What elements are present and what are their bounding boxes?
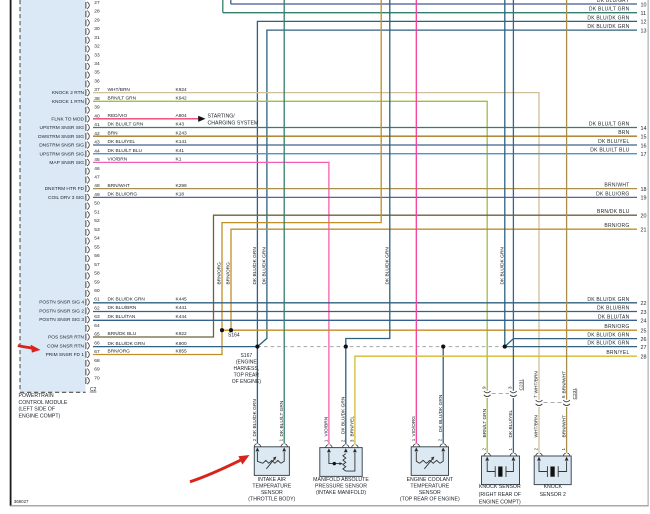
PCM pin 64 (connector terminal) bbox=[86, 323, 100, 332]
right exit 27: DK BLU/DK GRN label and lead number bbox=[587, 341, 646, 351]
svg-text:DK BLU/BRN: DK BLU/BRN bbox=[597, 306, 630, 312]
svg-text:54: 54 bbox=[94, 236, 100, 242]
svg-text:DK BLU/DK GRN: DK BLU/DK GRN bbox=[587, 24, 629, 30]
wire BRN/ORG from top edge jog to splice S164 bbox=[222, 0, 381, 330]
vertical wire label BRN/YEL at x=354.9 bbox=[350, 416, 356, 437]
wire BRN/ORG splice S164 up to exit 21 bbox=[231, 229, 637, 330]
right exit 26: DK BLU/DK GRN label and lead number bbox=[587, 333, 646, 343]
wire DK BLU/DK GRN bus junction down to ECT sensor pin 2 bbox=[442, 347, 444, 444]
svg-text:UPSTRM SNSR SIG: UPSTRM SNSR SIG bbox=[39, 151, 84, 157]
svg-text:BRN/ORG: BRN/ORG bbox=[226, 262, 232, 285]
wire label VIO/BRN K1 (pin 45) bbox=[108, 157, 182, 163]
svg-text:K1: K1 bbox=[176, 157, 182, 163]
right exit 18: BRN/WHT label and lead number bbox=[604, 183, 646, 193]
PCM pin 46 (connector terminal) bbox=[86, 166, 100, 175]
svg-text:OF ENGINE): OF ENGINE) bbox=[232, 379, 262, 385]
svg-text:10: 10 bbox=[641, 2, 647, 8]
PCM caption: POWERTRAIN CONTROL MODULE (LEFT SIDE OF ENGINE COMPT) bbox=[19, 393, 68, 419]
PCM pin 33 (connector terminal) bbox=[86, 52, 100, 61]
svg-text:COIL DRV 3 SIG: COIL DRV 3 SIG bbox=[48, 195, 84, 201]
pin 38 function label: KNOCK 1 RTN bbox=[52, 99, 85, 105]
shield/drain dashed bus S167 to junction at right bbox=[257, 346, 504, 348]
splice S167 junction dot bbox=[255, 345, 259, 349]
vertical wire label BRN/ORG at x=231.0 bbox=[226, 262, 232, 285]
svg-text:2: 2 bbox=[482, 448, 487, 451]
pin 49 function label: COIL DRV 3 SIG bbox=[48, 195, 84, 201]
svg-text:2: 2 bbox=[438, 438, 443, 441]
svg-text:27: 27 bbox=[94, 0, 100, 6]
right exit 11: DK BLU/LT GRN label and lead number bbox=[589, 7, 646, 17]
page border right bbox=[647, 0, 649, 506]
PCM pin 68 (connector terminal) bbox=[86, 358, 100, 367]
svg-text:COM SNSR RTN: COM SNSR RTN bbox=[47, 343, 84, 349]
wire DK BLU/DK GRN diagonal junction to exit 26 bbox=[505, 339, 637, 347]
pin 62 function label: POSTN SNSR SIG 2 bbox=[39, 309, 84, 315]
svg-text:K445: K445 bbox=[176, 296, 188, 302]
svg-text:3: 3 bbox=[508, 386, 513, 389]
PCM pin 59 (connector terminal) bbox=[86, 279, 100, 288]
PCM connector C2 label bbox=[90, 387, 97, 393]
inline connector C231 (knock sensor 2 wires) bbox=[533, 388, 578, 406]
svg-text:1: 1 bbox=[411, 438, 416, 441]
svg-text:K942: K942 bbox=[176, 96, 188, 102]
svg-text:VIO/BRN: VIO/BRN bbox=[108, 157, 128, 163]
PCM pin 43 (connector terminal) bbox=[86, 140, 100, 149]
svg-text:66: 66 bbox=[94, 340, 100, 346]
svg-text:(RIGHT REAR OF: (RIGHT REAR OF bbox=[479, 492, 521, 498]
wire DK BLU/LT GRN (exit 11) with stub to top edge bbox=[223, 0, 637, 13]
svg-text:WHT/BRN: WHT/BRN bbox=[108, 87, 131, 93]
wire label BRN/DK BLU K922 (pin 65) bbox=[108, 331, 188, 337]
svg-text:69: 69 bbox=[94, 367, 100, 373]
svg-text:DWSTRM SNSR SIG: DWSTRM SNSR SIG bbox=[38, 134, 84, 140]
svg-text:CONTROL MODULE: CONTROL MODULE bbox=[19, 400, 68, 406]
PCM pin 54 (connector terminal) bbox=[86, 236, 100, 245]
svg-text:25: 25 bbox=[641, 329, 647, 335]
red annotation arrow pointing at COM SNSR RTN pin 66 bbox=[18, 345, 41, 353]
vertical wire label BRN/ORG at x=222.0 bbox=[217, 262, 223, 285]
junction dot: bus to exits 26/27 bbox=[503, 345, 507, 349]
svg-text:DK BLU/DK GRN: DK BLU/DK GRN bbox=[108, 341, 146, 347]
svg-text:53: 53 bbox=[94, 227, 100, 233]
PCM pin 53 (connector terminal) bbox=[86, 227, 100, 236]
svg-text:30: 30 bbox=[94, 26, 100, 32]
wire label BRN/WHT K299 (pin 48) bbox=[108, 183, 188, 189]
vertical wire label VIO/ORG at x=416.3 bbox=[411, 416, 417, 437]
svg-text:13: 13 bbox=[641, 28, 647, 34]
wire K445 DK BLU/DK GRN pin 61 to exit 22 bbox=[93, 302, 637, 304]
svg-text:26: 26 bbox=[641, 337, 647, 343]
pin 43 function label: DNSTRM SNSR SIG bbox=[39, 143, 84, 149]
vertical wire label VIO/BRN at x=328.9 bbox=[324, 416, 330, 436]
svg-text:368027: 368027 bbox=[14, 499, 29, 504]
svg-text:BRN/LT GRN: BRN/LT GRN bbox=[482, 408, 488, 437]
vertical wire label DK BLU/DK GRN at x=257.4 bbox=[252, 399, 258, 437]
vertical wire label WHT/BRN at x=539.0 bbox=[534, 371, 540, 394]
wire label DK BLU/DK GRN K445 (pin 61) bbox=[108, 296, 188, 302]
vertical wire label DK BLU/DK GRN at x=345.8 bbox=[341, 396, 347, 434]
wire DK BLU/LT GRN from top edge down to IAT sensor pin 1 bbox=[283, 0, 285, 444]
svg-text:DNSTRM HTR FD: DNSTRM HTR FD bbox=[45, 186, 85, 192]
svg-text:61: 61 bbox=[94, 297, 100, 303]
svg-text:(ENGINE: (ENGINE bbox=[236, 360, 258, 366]
PCM pin 60 (connector terminal) bbox=[86, 288, 100, 297]
svg-text:64: 64 bbox=[94, 323, 100, 329]
PCM module body (light blue, dashed outline) bbox=[20, 0, 86, 392]
PCM pin 49 (connector terminal) bbox=[86, 192, 100, 201]
pin 41 function label: UPSTRM SNSR SIG bbox=[39, 125, 84, 131]
wire label BRN/ORG K855 (pin 67) bbox=[108, 349, 188, 355]
PCM pin 37 (connector terminal) bbox=[86, 87, 100, 96]
wire K444 DK BLU/TAN pin 63 to exit 24 bbox=[93, 319, 637, 321]
svg-text:DK BLU/TAN: DK BLU/TAN bbox=[598, 314, 630, 320]
svg-text:18: 18 bbox=[641, 187, 647, 193]
svg-text:BRN: BRN bbox=[108, 130, 119, 136]
PCM pin 62 (connector terminal) bbox=[86, 306, 100, 315]
page border bottom bbox=[10, 505, 649, 507]
pin 37 function label: KNOCK 2 RTN bbox=[52, 90, 85, 96]
PCM pin 31 (connector terminal) bbox=[86, 35, 100, 44]
svg-text:K18: K18 bbox=[176, 192, 185, 198]
svg-text:MAP SNSR SIG: MAP SNSR SIG bbox=[49, 160, 84, 166]
pin 63 function label: POSTN SNSR SIG 3 bbox=[39, 317, 84, 323]
svg-text:SENSOR 2: SENSOR 2 bbox=[540, 492, 566, 498]
PCM pin 69 (connector terminal) bbox=[86, 367, 100, 376]
svg-text:BRN/DK BLU: BRN/DK BLU bbox=[108, 331, 137, 337]
svg-text:DK BLU/DK GRN: DK BLU/DK GRN bbox=[587, 333, 629, 339]
knock sensor 2 caption bbox=[540, 484, 566, 498]
pin 42 function label: DWSTRM SNSR SIG bbox=[38, 134, 84, 140]
wire K924 WHT/BRN from PCM pin 37 to knock sensor 2 pin 2 bbox=[93, 93, 539, 400]
svg-text:46: 46 bbox=[94, 166, 100, 172]
right exit 17: DK BLU/LT BLU label and lead number bbox=[590, 148, 646, 158]
right exit 16: DK BLU/YEL label and lead number bbox=[598, 139, 646, 149]
svg-text:58: 58 bbox=[94, 271, 100, 277]
knock sensor caption bbox=[479, 484, 521, 506]
wire K441 DK BLU/BRN pin 62 to exit 23 bbox=[93, 311, 637, 313]
svg-text:59: 59 bbox=[94, 279, 100, 285]
wire DK BLU/DK GRN from top edge down to bus junction bbox=[504, 0, 506, 347]
drawing number 368027 bbox=[14, 499, 29, 504]
svg-text:1: 1 bbox=[323, 439, 328, 442]
svg-text:DK BLU/DK GRN: DK BLU/DK GRN bbox=[500, 247, 506, 285]
right exit 15: BRN label and lead number bbox=[618, 130, 646, 140]
svg-text:BRN/DK BLU: BRN/DK BLU bbox=[597, 209, 630, 215]
svg-text:UPSTRM SNSR SIG: UPSTRM SNSR SIG bbox=[39, 125, 84, 131]
svg-text:POSTN SNSR SIG 2: POSTN SNSR SIG 2 bbox=[39, 309, 84, 315]
PCM pin 44 (connector terminal) bbox=[86, 148, 100, 157]
right exit 28: BRN/YEL label and lead number bbox=[606, 350, 646, 360]
svg-text:KNOCK 1 RTN: KNOCK 1 RTN bbox=[52, 99, 85, 105]
svg-text:50: 50 bbox=[94, 201, 100, 207]
svg-text:2: 2 bbox=[252, 438, 257, 441]
pin 40 function label: FLNK TO MOD bbox=[51, 116, 84, 122]
svg-text:DK BLU/DK GRN: DK BLU/DK GRN bbox=[587, 341, 629, 347]
wire BRN/WHT below connector C231 to knock sensor 2 pin 1 bbox=[566, 407, 568, 453]
svg-text:MANIFOLD ABSOLUTE: MANIFOLD ABSOLUTE bbox=[313, 477, 369, 483]
svg-text:POSTN SNSR SIG 4: POSTN SNSR SIG 4 bbox=[39, 300, 84, 306]
svg-text:K855: K855 bbox=[176, 349, 188, 355]
svg-text:POWERTRAIN: POWERTRAIN bbox=[19, 393, 54, 399]
wire K922 BRN/DK BLU pin 65 jog up to exit 20 bbox=[93, 215, 637, 337]
engine coolant temperature sensor (ECT) bbox=[411, 438, 449, 475]
PCM pin 63 (connector terminal) bbox=[86, 314, 100, 323]
wire DK BLU/YEL from top edge down to knock sensor pin 1 bbox=[512, 0, 514, 391]
wire label DK BLU/YEL K141 (pin 43) bbox=[108, 139, 188, 145]
wire K141 DK BLU/YEL pin 43 to exit 16 bbox=[93, 144, 637, 146]
svg-text:DK BLU/DK GRN: DK BLU/DK GRN bbox=[108, 296, 146, 302]
svg-text:WHT/BRN: WHT/BRN bbox=[534, 371, 540, 394]
wire label DK BLU/DK GRN K900 (pin 66) bbox=[108, 341, 188, 347]
right exit 14: DK BLU/LT GRN label and lead number bbox=[589, 122, 647, 132]
svg-text:(TOP REAR OF ENGINE): (TOP REAR OF ENGINE) bbox=[400, 497, 460, 503]
right exit 25: BRN/ORG label and lead number bbox=[604, 324, 646, 334]
vertical wire label DK BLU/DK GRN at x=389.8 bbox=[385, 247, 391, 285]
splice S164 label bbox=[228, 332, 240, 338]
vertical wire label DK BLU/YEL at x=513.4 bbox=[508, 409, 514, 437]
PCM pin 35 (connector terminal) bbox=[86, 70, 100, 79]
wire DK BLU/DK GRN (exit 12) down to IAT sensor pin 2 via splice S167 bbox=[257, 21, 637, 443]
PCM pin 55 (connector terminal) bbox=[86, 244, 100, 253]
svg-text:6: 6 bbox=[561, 395, 566, 398]
wire DK BLU/GRY (exit 10) with stub to top edge bbox=[231, 0, 637, 4]
vertical wire label BRN/WHT at x=566.6 bbox=[561, 415, 567, 437]
svg-text:17: 17 bbox=[641, 152, 647, 158]
PCM pin 48 (connector terminal) bbox=[86, 183, 100, 192]
svg-text:DK BLU/LT GRN: DK BLU/LT GRN bbox=[108, 122, 144, 128]
pin 45 function label: MAP SNSR SIG bbox=[49, 160, 84, 166]
wire K243 BRN pin 42 to exit 15 bbox=[93, 135, 637, 137]
svg-text:DK BLU/DK GRN: DK BLU/DK GRN bbox=[252, 399, 258, 437]
svg-text:DK BLU/LT BLU: DK BLU/LT BLU bbox=[108, 148, 143, 154]
ECT sensor caption bbox=[400, 477, 460, 503]
PCM pin 28 (connector terminal) bbox=[86, 9, 100, 18]
PCM pin 45 (connector terminal) bbox=[86, 157, 100, 166]
wire DK BLU/DK GRN junction to exit 27 bbox=[505, 346, 637, 348]
svg-text:31: 31 bbox=[94, 35, 100, 41]
svg-text:BRN/ORG: BRN/ORG bbox=[604, 324, 629, 330]
PCM pin 61 (connector terminal) bbox=[86, 297, 100, 306]
svg-text:DK BLU/ORG: DK BLU/ORG bbox=[108, 192, 138, 198]
svg-text:CHARGING SYSTEM: CHARGING SYSTEM bbox=[208, 121, 259, 127]
PCM pin 70 (connector terminal) bbox=[86, 375, 100, 384]
right exit 22: DK BLU/DK GRN label and lead number bbox=[587, 297, 646, 307]
svg-text:52: 52 bbox=[94, 218, 100, 224]
svg-text:BRN/ORG: BRN/ORG bbox=[217, 262, 223, 285]
svg-text:1: 1 bbox=[508, 447, 513, 450]
svg-text:62: 62 bbox=[94, 306, 100, 312]
svg-text:PRIM SNSR FD 1: PRIM SNSR FD 1 bbox=[46, 352, 85, 358]
svg-text:32: 32 bbox=[94, 44, 100, 50]
vertical wire label DK BLU/DK GRN at x=266.9 bbox=[262, 247, 268, 285]
svg-text:47: 47 bbox=[94, 175, 100, 181]
wire label DK BLU/TAN K444 (pin 63) bbox=[108, 314, 188, 320]
svg-text:36: 36 bbox=[94, 79, 100, 85]
svg-text:KNOCK 2 RTN: KNOCK 2 RTN bbox=[52, 90, 85, 96]
wire K43 DK BLU/LT GRN pin 41 to exit 14 bbox=[93, 127, 637, 129]
svg-text:DK BLU/YEL: DK BLU/YEL bbox=[508, 409, 514, 437]
wire label WHT/BRN K924 (pin 37) bbox=[108, 87, 188, 93]
right exit 19: DK BLU/ORG label and lead number bbox=[596, 191, 646, 201]
wire WHT/BRN below connector C231 to knock sensor 2 pin 2 bbox=[538, 407, 540, 453]
svg-text:60: 60 bbox=[94, 288, 100, 294]
svg-text:DK BLU/DK GRN: DK BLU/DK GRN bbox=[587, 297, 629, 303]
svg-text:K299: K299 bbox=[176, 183, 188, 189]
right exit 21: BRN/ORG label and lead number bbox=[604, 223, 646, 233]
svg-text:TEMPERATURE: TEMPERATURE bbox=[252, 483, 291, 489]
svg-text:21: 21 bbox=[641, 228, 647, 234]
svg-text:14: 14 bbox=[641, 126, 647, 132]
svg-text:DK BLU/YEL: DK BLU/YEL bbox=[598, 139, 629, 145]
vertical wire label DK BLU/DK GRN at x=504.8 bbox=[500, 247, 506, 285]
svg-text:ENGINE COOLANT: ENGINE COOLANT bbox=[407, 477, 454, 483]
wire BRN/ORG splice S164 to exit 25 bbox=[222, 329, 637, 331]
wire label BRN K243 (pin 42) bbox=[108, 130, 188, 136]
svg-text:BRN/ORG: BRN/ORG bbox=[108, 349, 131, 355]
svg-text:33: 33 bbox=[94, 52, 100, 58]
svg-text:PRESSURE SENSOR: PRESSURE SENSOR bbox=[315, 483, 367, 489]
right exit 12: DK BLU/DK GRN label and lead number bbox=[587, 15, 646, 25]
svg-text:(INTAKE MANIFOLD): (INTAKE MANIFOLD) bbox=[316, 490, 366, 496]
wire BRN/WHT from top edge down to knock sensor 2 pin 1 bbox=[566, 0, 568, 400]
wire K942 BRN/LT GRN from PCM pin 38 to knock sensor pin 2 bbox=[93, 101, 487, 391]
PCM pin 27 (connector terminal) bbox=[86, 0, 100, 9]
svg-text:68: 68 bbox=[94, 358, 100, 364]
svg-text:1: 1 bbox=[561, 448, 566, 451]
IAT sensor caption bbox=[248, 477, 295, 503]
wire label DK BLU/LT GRN K43 (pin 41) bbox=[108, 122, 185, 128]
svg-text:K922: K922 bbox=[176, 331, 188, 337]
svg-text:28: 28 bbox=[94, 9, 100, 15]
svg-text:(THROTTLE BODY): (THROTTLE BODY) bbox=[248, 497, 295, 503]
svg-text:23: 23 bbox=[641, 310, 647, 316]
svg-text:20: 20 bbox=[641, 214, 647, 220]
svg-text:DK BLU/LT BLU: DK BLU/LT BLU bbox=[590, 148, 629, 154]
svg-text:BRN/LT GRN: BRN/LT GRN bbox=[108, 96, 137, 102]
svg-text:DK BLU/LT GRN: DK BLU/LT GRN bbox=[279, 400, 285, 436]
wire BRN/YEL MAP sensor pin 3 up and right to exit 28 bbox=[355, 356, 637, 444]
svg-text:TEMPERATURE: TEMPERATURE bbox=[410, 483, 449, 489]
wire A804 RED/VIO from PCM pin 40 to starting/charging system bbox=[93, 118, 199, 120]
svg-text:1: 1 bbox=[279, 438, 284, 441]
vertical wire label WHT/BRN at x=539.0 bbox=[534, 415, 540, 438]
svg-text:57: 57 bbox=[94, 262, 100, 268]
svg-text:DK BLU/DK GRN: DK BLU/DK GRN bbox=[262, 247, 268, 285]
svg-text:DK BLU/BRN: DK BLU/BRN bbox=[108, 305, 137, 311]
svg-text:K43: K43 bbox=[176, 122, 185, 128]
svg-text:55: 55 bbox=[94, 244, 100, 250]
svg-text:KNOCK: KNOCK bbox=[544, 484, 563, 490]
PCM pin 39 (connector terminal) bbox=[86, 105, 100, 114]
PCM pin 67 (connector terminal) bbox=[86, 349, 100, 358]
PCM pin 34 (connector terminal) bbox=[86, 61, 100, 70]
svg-text:2: 2 bbox=[534, 448, 539, 451]
PCM pin 50 (connector terminal) bbox=[86, 201, 100, 210]
PCM pin 41 (connector terminal) bbox=[86, 122, 100, 131]
svg-text:HARNESS,: HARNESS, bbox=[234, 366, 260, 372]
svg-text:DK BLU/DK GRN: DK BLU/DK GRN bbox=[252, 247, 258, 285]
svg-text:K444: K444 bbox=[176, 314, 188, 320]
wire K855 BRN/ORG pin 67 up to splice S164 bbox=[93, 330, 222, 354]
wire BRN/LT GRN below connector C231 to knock sensor pin 2 bbox=[486, 398, 488, 453]
svg-text:BRN/WHT: BRN/WHT bbox=[561, 371, 567, 393]
svg-text:K141: K141 bbox=[176, 139, 188, 145]
svg-text:BRN/WHT: BRN/WHT bbox=[108, 183, 130, 189]
svg-text:22: 22 bbox=[641, 301, 647, 307]
svg-text:POS SNSR RTN: POS SNSR RTN bbox=[48, 335, 84, 341]
PCM pin 51 (connector terminal) bbox=[86, 209, 100, 218]
PCM pin 65 (connector terminal) bbox=[86, 332, 100, 341]
right exit 10: DK BLU/GRY label and lead number bbox=[597, 0, 647, 8]
svg-text:BRN/WHT: BRN/WHT bbox=[604, 183, 629, 189]
inline connector C231 (knock sensor wires) bbox=[481, 379, 524, 397]
right exit 20: BRN/DK BLU label and lead number bbox=[597, 209, 647, 219]
svg-text:FLNK TO MOD: FLNK TO MOD bbox=[51, 116, 84, 122]
svg-text:S167: S167 bbox=[240, 353, 252, 359]
right exit 24: DK BLU/TAN label and lead number bbox=[598, 314, 647, 324]
svg-text:63: 63 bbox=[94, 314, 100, 320]
intake air temperature sensor (IAT) bbox=[252, 438, 290, 475]
svg-text:DK BLU/DK GRN: DK BLU/DK GRN bbox=[438, 394, 444, 432]
svg-text:K924: K924 bbox=[176, 87, 188, 93]
svg-text:16: 16 bbox=[641, 143, 647, 149]
svg-text:DK BLU/YEL: DK BLU/YEL bbox=[108, 139, 136, 145]
svg-text:BRN/YEL: BRN/YEL bbox=[606, 350, 629, 356]
svg-text:DK BLU/DK GRN: DK BLU/DK GRN bbox=[587, 15, 629, 21]
svg-text:39: 39 bbox=[94, 105, 100, 111]
svg-text:SENSOR: SENSOR bbox=[261, 490, 283, 496]
pin 61 function label: POSTN SNSR SIG 4 bbox=[39, 300, 84, 306]
PCM pin 56 (connector terminal) bbox=[86, 253, 100, 262]
junction dot: bus to ECT pin 2 bbox=[441, 345, 445, 349]
svg-text:29: 29 bbox=[94, 17, 100, 23]
svg-text:BRN/YEL: BRN/YEL bbox=[350, 416, 356, 437]
svg-text:VIO/BRN: VIO/BRN bbox=[324, 416, 330, 436]
svg-text:DK BLU/ORG: DK BLU/ORG bbox=[596, 191, 629, 197]
svg-text:ENGINE COMPT): ENGINE COMPT) bbox=[479, 500, 521, 506]
svg-text:15: 15 bbox=[641, 135, 647, 141]
svg-text:27: 27 bbox=[641, 345, 647, 351]
wire K41 DK BLU/LT BLU pin 44 to exit 17 bbox=[93, 153, 637, 155]
wire VIO/ORG from top edge down to ECT sensor pin 1 bbox=[415, 0, 417, 444]
wire label BRN/LT GRN K942 (pin 38) bbox=[108, 96, 188, 102]
vertical wire label BRN/LT GRN at x=487.2 bbox=[482, 408, 488, 437]
svg-text:11: 11 bbox=[641, 11, 647, 17]
svg-text:19: 19 bbox=[641, 196, 647, 202]
svg-text:KNOCK SENSOR: KNOCK SENSOR bbox=[479, 484, 521, 490]
junction dot: bus to MAP pin 2 bbox=[344, 345, 348, 349]
svg-text:RED/VIO: RED/VIO bbox=[108, 113, 128, 119]
svg-text:K41: K41 bbox=[176, 148, 185, 154]
wire K900 DK BLU/DK GRN pin 66 to splice S167 bbox=[93, 346, 257, 348]
wire DK BLU/DK GRN from top edge jog down to MAP sensor pin 2 bbox=[346, 0, 390, 444]
svg-text:28: 28 bbox=[641, 355, 647, 361]
pin 48 function label: DNSTRM HTR FD bbox=[45, 186, 85, 192]
wire label DK BLU/LT BLU K41 (pin 44) bbox=[108, 148, 185, 154]
svg-text:DK BLU/DK GRN: DK BLU/DK GRN bbox=[385, 247, 391, 285]
svg-text:K900: K900 bbox=[176, 341, 188, 347]
svg-text:WHT/BRN: WHT/BRN bbox=[534, 415, 540, 438]
wire label RED/VIO A804 (pin 40) bbox=[108, 113, 188, 119]
svg-text:INTAKE AIR: INTAKE AIR bbox=[258, 477, 286, 483]
wire K1 VIO/BRN pin 45 down to MAP sensor pin 1 bbox=[93, 162, 329, 444]
wire DK BLU/DK GRN (exit 13) down to splice S167 diagonal bbox=[257, 30, 637, 347]
svg-text:TOP REAR: TOP REAR bbox=[234, 373, 260, 379]
wire label DK BLU/ORG K18 (pin 49) bbox=[108, 192, 185, 198]
PCM pin 66 (connector terminal) bbox=[86, 340, 100, 349]
PCM pin 38 (connector terminal) bbox=[86, 96, 100, 105]
right exit 13: DK BLU/DK GRN label and lead number bbox=[587, 24, 646, 34]
